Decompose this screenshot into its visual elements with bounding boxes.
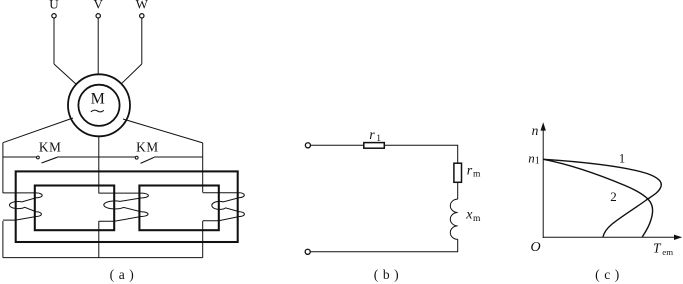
- core left window: [35, 186, 114, 231]
- svg-text:KM: KM: [39, 139, 62, 154]
- svg-text:m: m: [473, 214, 481, 224]
- KM wire segment 2: [57, 156, 135, 158]
- wire motor to left leg diagonal: [3, 118, 73, 143]
- KM wire segment 3: [154, 156, 203, 158]
- svg-text:r: r: [467, 163, 473, 178]
- svg-text:(b): (b): [374, 267, 404, 282]
- wire motor bottom vertical: [98, 136, 100, 193]
- wire U vertical: [53, 18, 55, 64]
- x axis: [543, 236, 676, 238]
- svg-text:2: 2: [610, 189, 617, 204]
- motor tilde: [91, 110, 104, 112]
- wire right phase vertical lower: [202, 221, 204, 258]
- terminal circle bottom left: [305, 249, 310, 254]
- svg-text:(c): (c): [595, 267, 624, 282]
- motor M inner circle: [78, 85, 119, 126]
- wire motor to right leg diagonal: [123, 119, 203, 143]
- svg-text:M: M: [91, 90, 105, 107]
- svg-text:W: W: [136, 0, 149, 12]
- KM blade right: [141, 157, 155, 163]
- svg-text:n: n: [532, 123, 539, 138]
- wire top right: [384, 145, 457, 163]
- core right window: [139, 186, 218, 231]
- core outer rectangle: [16, 171, 238, 242]
- svg-text:em: em: [662, 247, 673, 257]
- wire U diagonal to motor: [54, 64, 76, 84]
- svg-text:1: 1: [619, 151, 625, 165]
- curve 1: [544, 159, 662, 237]
- wire top left: [310, 144, 364, 146]
- resistor r1: [364, 143, 385, 149]
- KM contact circle right: [135, 156, 138, 159]
- wire V vertical to motor: [97, 18, 99, 75]
- svg-text:U: U: [49, 0, 59, 12]
- KM wire segment 1: [3, 156, 37, 158]
- y axis: [542, 126, 544, 238]
- curve 2: [544, 159, 653, 237]
- terminal circle W: [140, 14, 144, 18]
- wire right phase vertical upper: [202, 143, 204, 193]
- svg-text:r: r: [369, 128, 375, 143]
- inductor xm: [450, 199, 457, 239]
- coil on middle leg: [99, 193, 149, 221]
- svg-text:V: V: [94, 0, 104, 12]
- KM contact circle left: [37, 156, 40, 159]
- coil on right leg: [203, 193, 245, 221]
- svg-text:m: m: [473, 170, 481, 180]
- terminal circle V: [96, 14, 100, 18]
- bottom bus wire: [3, 257, 203, 259]
- terminal circle U: [52, 14, 56, 18]
- svg-text:KM: KM: [136, 139, 159, 154]
- wire bottom right: [310, 239, 458, 252]
- wire W vertical: [141, 18, 143, 64]
- svg-text:1: 1: [535, 155, 540, 166]
- resistor rm: [454, 163, 462, 182]
- x axis arrowhead: [674, 235, 682, 240]
- KM blade left: [42, 157, 58, 163]
- wire left phase vertical upper: [2, 143, 4, 193]
- svg-text:1: 1: [376, 134, 381, 144]
- wire left phase vertical lower: [2, 221, 4, 258]
- terminal circle top left: [305, 143, 310, 148]
- svg-text:O: O: [530, 240, 540, 255]
- svg-text:(a): (a): [110, 267, 139, 282]
- coil on left leg: [3, 193, 42, 220]
- wire W diagonal to motor: [121, 64, 142, 84]
- wire rm to xm: [457, 182, 459, 199]
- motor M outer circle: [68, 74, 130, 136]
- y axis arrowhead: [541, 122, 546, 130]
- wire middle phase vertical lower: [98, 221, 100, 258]
